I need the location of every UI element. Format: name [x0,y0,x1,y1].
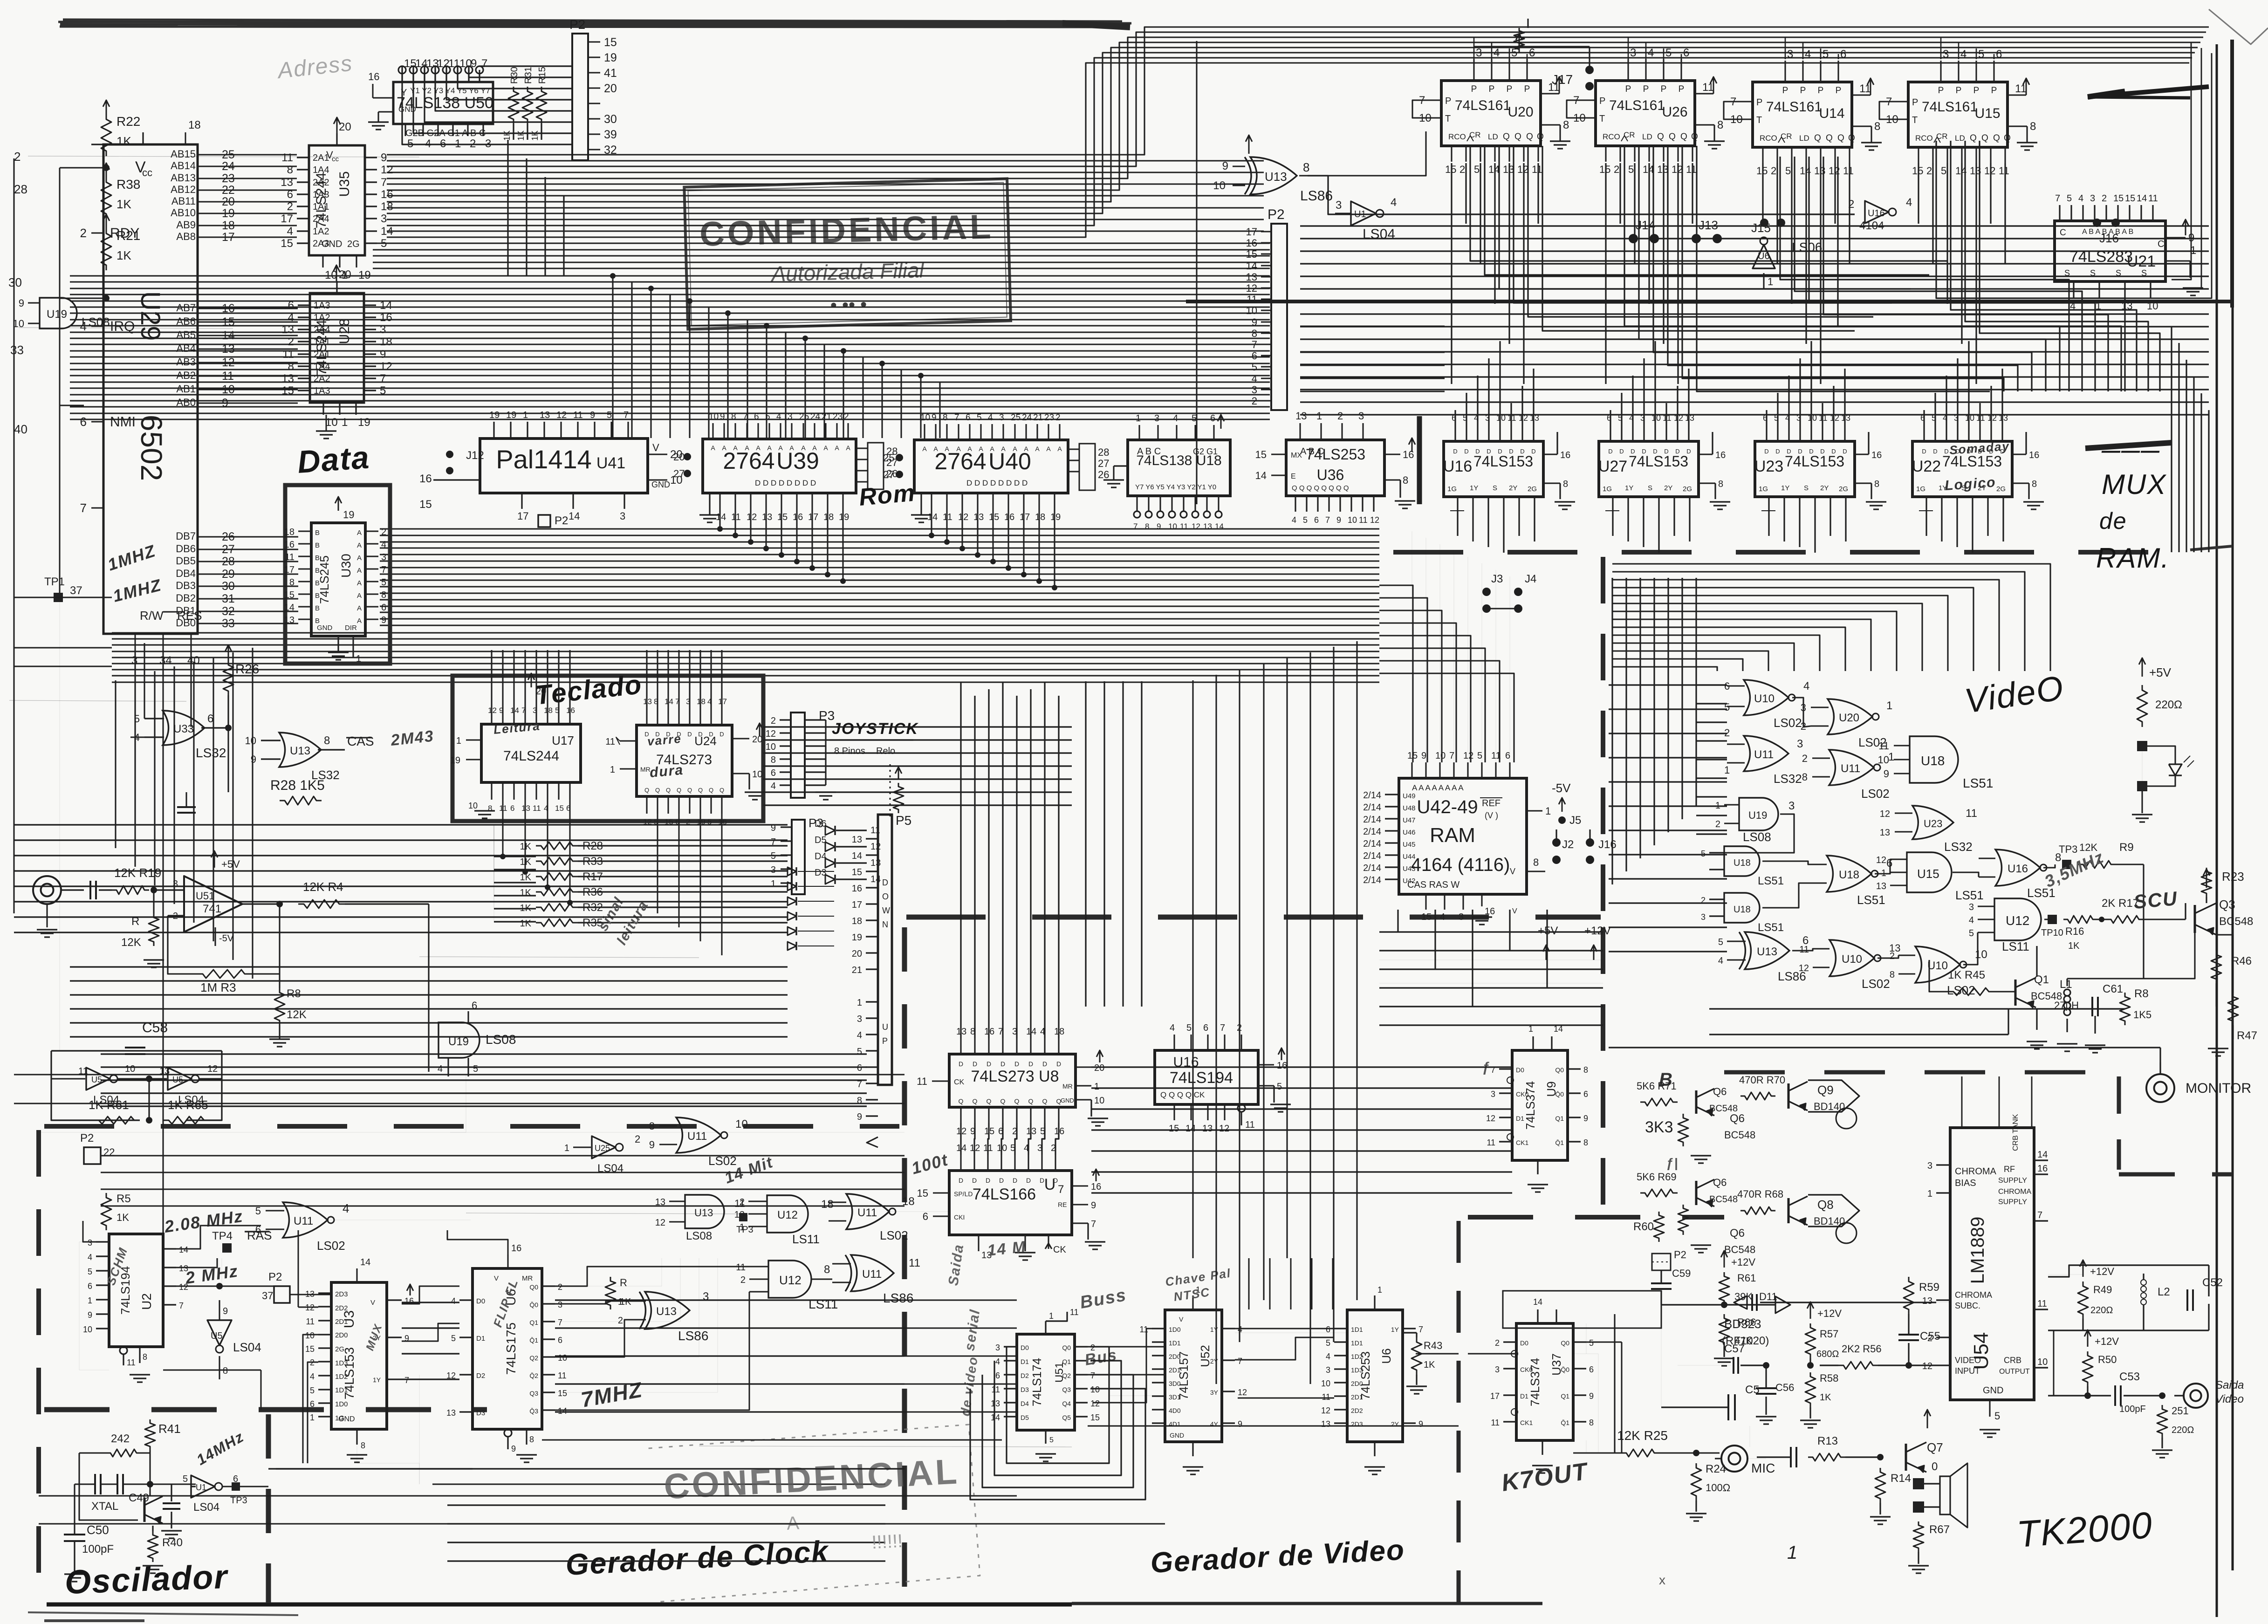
svg-text:U44: U44 [1403,853,1416,861]
svg-text:P: P [1489,84,1495,94]
svg-text:5: 5 [1941,165,1946,177]
svg-text:LS04: LS04 [193,1501,219,1514]
svg-text:A: A [357,541,362,549]
svg-text:1Y: 1Y [1391,1326,1399,1333]
svg-text:12: 12 [1517,164,1528,175]
svg-text:LS02: LS02 [880,1228,908,1242]
svg-text:11: 11 [558,1371,567,1380]
svg-text:U47: U47 [1403,816,1416,824]
svg-text:15: 15 [419,498,432,511]
svg-text:A: A [357,529,362,537]
svg-text:10: 10 [752,769,762,780]
svg-text:11: 11 [1491,751,1501,761]
svg-text:14: 14 [716,512,726,522]
svg-text:DB6: DB6 [176,543,196,555]
svg-text:CK1: CK1 [1520,1419,1533,1426]
svg-text:5: 5 [607,410,612,420]
svg-text:R: R [620,1277,627,1288]
svg-text:13: 13 [734,1210,745,1220]
svg-text:2/14: 2/14 [1363,839,1381,849]
svg-text:U46: U46 [1403,829,1416,836]
svg-text:6: 6 [310,1399,315,1409]
svg-text:U27: U27 [1598,458,1627,475]
svg-text:220Ω: 220Ω [2172,1425,2194,1435]
svg-text:100pF: 100pF [2119,1404,2146,1414]
svg-text:MR: MR [640,766,651,773]
svg-text:5: 5 [1474,164,1480,175]
svg-text:R31: R31 [523,67,534,84]
svg-text:5: 5 [88,1267,92,1276]
svg-text:1: 1 [310,1413,315,1422]
svg-text:LD: LD [1799,134,1809,143]
svg-text:7: 7 [1325,515,1330,525]
svg-text:Q: Q [687,787,692,794]
svg-text:U43: U43 [1403,865,1416,873]
svg-text:2: 2 [1890,951,1895,961]
svg-text:40: 40 [14,422,27,436]
svg-text:8: 8 [381,590,386,600]
svg-text:BC548: BC548 [1724,1244,1755,1255]
svg-text:3: 3 [771,865,776,875]
svg-text:11: 11 [1843,165,1854,177]
svg-text:D: D [1944,448,1948,455]
svg-text:14: 14 [1185,1124,1196,1134]
svg-text:4: 4 [381,540,386,550]
svg-text:+12V: +12V [1817,1308,1842,1319]
svg-text:6: 6 [1203,1023,1208,1033]
svg-text:Q6: Q6 [1730,1227,1745,1240]
svg-text:A A A A A A A A: A A A A A A A A [1412,783,1464,792]
svg-text:7: 7 [558,1318,562,1327]
svg-text:+12V: +12V [2095,1336,2119,1347]
svg-text:12K R25: 12K R25 [1617,1428,1668,1443]
svg-text:16: 16 [1246,237,1257,249]
svg-text:10: 10 [1321,1379,1330,1388]
svg-text:16: 16 [1004,512,1014,522]
svg-text:B: B [315,541,320,549]
svg-text:1D0: 1D0 [335,1400,348,1408]
svg-text:2G: 2G [347,239,360,249]
svg-text:AB14: AB14 [171,160,196,171]
svg-text:Q0: Q0 [529,1283,538,1291]
svg-text:8: 8 [1563,119,1569,131]
svg-text:4: 4 [771,781,776,791]
svg-text:16: 16 [1485,906,1495,917]
svg-text:6: 6 [995,1371,1000,1380]
svg-text:3: 3 [999,413,1004,423]
svg-text:8: 8 [1563,479,1568,489]
svg-text:LS06: LS06 [1792,240,1822,254]
svg-text:5: 5 [1978,48,1984,61]
svg-text:13: 13 [973,512,984,522]
svg-text:P2: P2 [80,1132,94,1144]
svg-text:+12V: +12V [1584,925,1611,937]
svg-text:1K: 1K [620,1297,631,1307]
svg-text:A: A [756,444,761,452]
svg-text:9: 9 [381,615,386,625]
svg-text:U16: U16 [1868,208,1885,219]
svg-text:A: A [846,444,850,452]
svg-text:8 Pinos: 8 Pinos [834,746,865,756]
svg-text:U16: U16 [2008,863,2028,875]
svg-text:CR: CR [1469,130,1481,139]
svg-text:5: 5 [1326,1338,1330,1348]
svg-text:Q0: Q0 [1555,1066,1564,1074]
svg-text:74LS174: 74LS174 [1030,1358,1044,1406]
svg-text:Q̄0: Q̄0 [529,1301,538,1309]
svg-text:1: 1 [342,416,348,429]
svg-text:A: A [967,445,972,452]
svg-text:14: 14 [360,1257,370,1268]
svg-text:ƒ|: ƒ| [1666,1156,1679,1170]
svg-text:2: 2 [1459,164,1465,175]
svg-text:6: 6 [1840,48,1846,61]
svg-text:11: 11 [1247,294,1257,305]
svg-text:15: 15 [604,36,617,49]
svg-text:C: C [2158,239,2164,249]
svg-text:Q: Q [1000,1097,1006,1105]
svg-text:U13: U13 [656,1305,677,1318]
svg-text:P: P [1956,86,1962,96]
svg-text:32: 32 [604,144,617,157]
svg-text:TP4: TP4 [212,1230,233,1242]
svg-text:AB3: AB3 [176,356,196,368]
svg-text:14: 14 [1643,164,1654,175]
svg-text:10: 10 [1975,948,1987,961]
svg-text:J3: J3 [1491,573,1503,585]
svg-text:5: 5 [451,1334,456,1343]
svg-text:D: D [709,731,713,738]
svg-text:BD323: BD323 [1724,1317,1761,1331]
svg-text:7: 7 [1220,1023,1225,1033]
svg-text:A: A [801,444,806,452]
svg-text:D1: D1 [1516,1115,1524,1122]
svg-text:P: P [1800,86,1806,96]
svg-text:1: 1 [1136,413,1141,424]
svg-text:5: 5 [310,1386,315,1395]
svg-text:U5: U5 [172,1075,183,1084]
svg-text:CR: CR [1781,132,1792,141]
svg-text:U18: U18 [1921,754,1945,768]
svg-text:A B C: A B C [1137,446,1161,457]
svg-text:Q4: Q4 [1062,1400,1071,1407]
svg-text:A: A [711,444,715,452]
svg-text:4: 4 [1960,48,1967,61]
svg-text:TP3: TP3 [230,1495,247,1506]
svg-text:D D D D D D D D: D D D D D D D D [966,479,1028,487]
svg-text:10: 10 [1348,515,1357,525]
svg-text:18: 18 [852,916,862,926]
svg-text:3Y: 3Y [1210,1389,1219,1396]
svg-text:D: D [1042,1060,1047,1068]
svg-text:251: 251 [2172,1405,2189,1417]
svg-text:12: 12 [747,512,757,522]
svg-text:242: 242 [111,1432,130,1445]
svg-text:9: 9 [499,706,503,715]
svg-text:U6: U6 [1379,1348,1393,1364]
svg-text:7: 7 [2055,193,2060,204]
svg-text:CR: CR [1624,130,1635,139]
svg-text:12: 12 [1672,164,1683,175]
svg-text:-5V: -5V [1552,781,1571,795]
svg-text:AB9: AB9 [176,219,196,231]
svg-text:5: 5 [1969,928,1974,939]
svg-text:A: A [778,444,783,452]
svg-text:P: P [1471,84,1477,94]
svg-text:74LS175: 74LS175 [504,1322,518,1375]
svg-text:J16: J16 [1598,838,1617,851]
svg-text:D3: D3 [1021,1386,1029,1393]
svg-text:14: 14 [665,697,673,706]
svg-text:A: A [357,617,362,625]
svg-text:6: 6 [966,413,971,423]
svg-text:Q: Q [666,787,671,794]
svg-text:R8: R8 [2134,987,2149,1000]
svg-text:15: 15 [281,237,293,250]
svg-text:3: 3 [995,1343,1000,1352]
svg-text:3: 3 [1787,48,1793,61]
svg-text:5: 5 [255,1205,261,1217]
svg-text:C56: C56 [1775,1382,1794,1393]
svg-text:Q: Q [1526,132,1533,142]
svg-text:Q̄3: Q̄3 [529,1407,538,1415]
svg-text:5: 5 [381,577,386,588]
svg-text:C61: C61 [2103,983,2123,995]
svg-text:18: 18 [380,336,392,348]
svg-text:V: V [1510,867,1515,876]
svg-text:Q: Q [709,787,713,794]
svg-text:2/14: 2/14 [1363,875,1381,885]
svg-text:10: 10 [735,1118,748,1131]
svg-text:10: 10 [305,1331,315,1340]
svg-text:21: 21 [852,965,862,975]
svg-text:D: D [1631,448,1635,455]
svg-text:1: 1 [1377,1285,1382,1295]
svg-text:4: 4 [2078,193,2083,204]
svg-text:6: 6 [88,1281,92,1291]
svg-text:de: de [2099,508,2127,534]
svg-text:3: 3 [1797,738,1803,750]
svg-text:2D0: 2D0 [1351,1380,1363,1387]
svg-text:Q: Q [1657,132,1664,142]
svg-text:NMI: NMI [110,414,136,430]
svg-text:100Ω: 100Ω [1706,1482,1730,1494]
svg-text:2: 2 [844,412,849,422]
svg-text:1K: 1K [516,130,526,141]
svg-text:D: D [999,1177,1004,1184]
svg-text:74LS153: 74LS153 [1629,453,1688,470]
svg-text:8: 8 [1303,160,1309,174]
svg-text:2: 2 [288,336,294,348]
svg-text:D3: D3 [476,1409,485,1417]
svg-text:D: D [1922,448,1926,455]
svg-text:74LS374: 74LS374 [1523,1081,1537,1130]
svg-text:1K: 1K [520,842,532,852]
svg-text:U12: U12 [777,1209,798,1221]
svg-text:8: 8 [1583,1065,1588,1075]
svg-text:2764: 2764 [723,448,774,474]
svg-text:D3: D3 [815,868,827,878]
svg-text:Q: Q [1503,132,1510,142]
svg-text:U20: U20 [1507,104,1533,120]
svg-text:R: R [131,915,139,928]
svg-text:1K: 1K [502,130,512,141]
svg-text:33: 33 [10,343,24,357]
svg-text:U16: U16 [1443,458,1472,475]
svg-text:5: 5 [1665,47,1672,59]
svg-text:5: 5 [1192,413,1197,424]
svg-text:13: 13 [870,858,881,868]
svg-text:9: 9 [1336,515,1341,525]
svg-text:74LS194: 74LS194 [1170,1069,1233,1087]
svg-text:10: 10 [125,1064,135,1074]
svg-text:U20: U20 [1839,712,1859,724]
svg-text:U10: U10 [1842,953,1862,966]
svg-text:SUPPLY: SUPPLY [1998,1177,2027,1185]
svg-text:1G: 1G [1916,485,1925,493]
svg-text:P: P [1912,97,1918,108]
svg-text:14: 14 [1255,470,1267,481]
svg-text:11: 11 [736,1262,746,1273]
svg-text:16: 16 [852,884,862,894]
svg-text:3: 3 [1336,199,1342,212]
svg-text:11: 11 [1322,1392,1330,1402]
svg-text:U19: U19 [1748,809,1767,821]
svg-text:B: B [315,529,320,537]
svg-text:16: 16 [284,540,295,550]
svg-text:9: 9 [590,410,595,420]
svg-text:6: 6 [510,804,514,813]
svg-text:17: 17 [808,512,818,522]
svg-text:CHROMA: CHROMA [1998,1188,2031,1196]
svg-text:12: 12 [655,1218,665,1228]
svg-text:A: A [357,592,362,600]
svg-text:TP3: TP3 [2059,843,2077,855]
svg-text:U11: U11 [294,1215,313,1227]
svg-text:Q: Q [1042,1097,1048,1105]
svg-text:2/14: 2/14 [1363,863,1381,873]
svg-text:12: 12 [1370,515,1379,525]
svg-text:Q7: Q7 [1927,1440,1943,1454]
svg-text:GND: GND [322,239,342,249]
svg-text:7: 7 [1449,751,1454,761]
svg-text:AB13: AB13 [171,172,196,184]
svg-text:2: 2 [381,527,386,537]
svg-text:13: 13 [1922,1296,1932,1306]
svg-text:4: 4 [1391,196,1397,209]
svg-text:D: D [987,1060,991,1068]
svg-text:Q3: Q3 [1062,1386,1071,1393]
svg-text:8: 8 [1589,1418,1594,1427]
svg-text:8: 8 [287,164,293,176]
svg-text:10: 10 [245,735,256,747]
svg-text:4: 4 [310,1372,315,1381]
svg-text:P: P [1973,86,1980,96]
svg-text:18: 18 [544,706,553,715]
svg-text:INPUT: INPUT [1955,1366,1980,1376]
svg-text:12: 12 [381,164,393,176]
svg-text:7: 7 [743,412,748,422]
svg-text:LS86: LS86 [678,1329,708,1343]
svg-text:2: 2 [2102,193,2107,204]
svg-text:A: A [722,444,726,452]
svg-text:9: 9 [380,348,386,361]
svg-text:13: 13 [1246,271,1257,283]
svg-text:R30: R30 [509,67,520,84]
svg-text:A: A [745,444,749,452]
svg-text:RCO: RCO [1760,134,1777,143]
svg-text:17: 17 [1246,226,1257,238]
svg-text:14: 14 [558,1406,567,1416]
svg-text:11: 11 [1686,164,1697,175]
svg-text:R16: R16 [2065,925,2084,937]
svg-text:R13: R13 [1817,1435,1838,1447]
svg-text:14: 14 [1246,260,1257,272]
svg-text:D: D [986,1177,990,1184]
svg-text:12: 12 [380,360,392,373]
svg-text:7: 7 [1090,1371,1095,1380]
svg-text:XTAL: XTAL [91,1500,118,1513]
svg-text:11: 11 [127,1358,136,1367]
svg-text:5: 5 [1701,849,1706,858]
svg-text:3: 3 [1154,413,1159,424]
svg-text:1G: 1G [1759,485,1768,493]
svg-text:CK0: CK0 [1516,1090,1528,1098]
svg-text:1D1: 1D1 [1351,1326,1363,1333]
svg-text:C59: C59 [1672,1268,1691,1279]
svg-text:D: D [1487,448,1491,455]
svg-text:1: 1 [456,736,461,746]
svg-text:2D2: 2D2 [335,1304,348,1312]
svg-text:LM1889: LM1889 [1967,1217,1988,1284]
svg-text:13: 13 [305,1289,315,1299]
svg-text:2G: 2G [1996,485,2006,493]
svg-text:2D1: 2D1 [1169,1366,1181,1374]
svg-text:470R R70: 470R R70 [1739,1074,1785,1086]
svg-text:1D1: 1D1 [335,1386,348,1394]
svg-text:D1: D1 [1520,1392,1528,1400]
svg-text:741: 741 [203,903,221,915]
svg-text:3: 3 [1252,384,1257,396]
svg-text:Q: Q [1014,1097,1020,1105]
svg-text:C49: C49 [129,1492,149,1504]
svg-text:12: 12 [1321,1406,1330,1415]
svg-text:D: D [1520,448,1524,455]
svg-text:14: 14 [569,510,580,522]
svg-text:Data: Data [296,439,371,480]
svg-text:U39: U39 [776,448,819,474]
svg-text:6: 6 [1505,751,1510,761]
svg-text:220Ω: 220Ω [2155,699,2182,711]
svg-text:10: 10 [2037,1357,2048,1367]
svg-text:1: 1 [1545,805,1551,817]
svg-text:74LS244: 74LS244 [503,748,559,764]
svg-text:27: 27 [673,468,685,480]
svg-text:3: 3 [1630,47,1636,59]
svg-text:12K R19: 12K R19 [114,866,161,880]
svg-text:2: 2 [173,911,178,921]
svg-text:D0: D0 [1520,1339,1528,1347]
svg-text:1: 1 [1724,764,1730,776]
svg-text:Q̄1: Q̄1 [1555,1139,1564,1146]
svg-text:14: 14 [870,874,881,884]
svg-text:1D1: 1D1 [1169,1339,1181,1347]
svg-text:J2: J2 [1562,838,1574,851]
svg-text:A: A [990,445,994,452]
svg-text:11: 11 [917,1076,927,1087]
svg-text:12: 12 [1880,809,1890,819]
svg-text:3: 3 [1358,410,1364,422]
